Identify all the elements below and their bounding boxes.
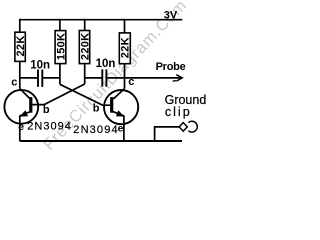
- wire T1 emitter down: [19, 115, 21, 141]
- wire R4 bottom lead / T2 collector: [124, 64, 126, 89]
- wire ground clip branch: [155, 127, 179, 142]
- transistor Q2 emitter arrow: [116, 110, 124, 116]
- wire T1 collector diagonal: [20, 89, 31, 99]
- wire R2 bottom lead: [59, 64, 61, 85]
- svg-text:c: c: [128, 76, 134, 88]
- wire cross diagonal B to T1 base: [33, 84, 85, 105]
- wire top rail 3V: [20, 19, 183, 21]
- capacitor C1 10n: [38, 70, 42, 87]
- svg-text:c: c: [11, 77, 17, 89]
- transistor Q2 circle: [104, 90, 138, 124]
- ground clip diamond: [179, 123, 187, 132]
- svg-text:2N3094: 2N3094: [73, 124, 118, 136]
- svg-text:10n: 10n: [96, 58, 116, 70]
- svg-text:2N3094: 2N3094: [27, 121, 72, 133]
- wire bottom rail: [20, 140, 182, 142]
- svg-text:22K: 22K: [120, 37, 132, 58]
- wire R4 top stub: [124, 19, 126, 33]
- resistor R3 220K: [79, 31, 91, 64]
- wire T2 emitter down: [123, 115, 125, 141]
- wire T2 emitter diagonal: [113, 112, 124, 116]
- svg-text:220K: 220K: [80, 33, 92, 61]
- transistor Q1 circle: [4, 90, 38, 124]
- svg-text:10n: 10n: [30, 59, 50, 71]
- capacitor C2 10n: [102, 69, 106, 86]
- svg-text:b: b: [43, 104, 50, 116]
- wire cross diagonal A to T2 base: [60, 84, 110, 105]
- wire R3 bottom lead: [84, 64, 86, 84]
- svg-text:clip: clip: [165, 105, 192, 119]
- svg-text:e: e: [18, 121, 24, 133]
- svg-text:150K: 150K: [55, 33, 67, 61]
- wire T1 emitter diagonal: [20, 112, 30, 116]
- svg-text:22K: 22K: [15, 35, 27, 56]
- svg-text:3V: 3V: [164, 10, 178, 22]
- transistor Q2 base bar: [110, 97, 113, 113]
- transistor Q1 base bar: [29, 97, 32, 113]
- probe arrowhead: [176, 75, 182, 81]
- wire node1 to C1: [20, 77, 38, 79]
- ground clip circle: [188, 121, 197, 132]
- resistor R4 22K: [119, 33, 131, 64]
- wire C1 right lead: [43, 77, 60, 79]
- svg-text:Probe: Probe: [156, 61, 186, 73]
- wire probe lead: [107, 77, 182, 79]
- wire R2 top stub: [59, 19, 61, 31]
- wire R1 bottom lead / T1 collector: [19, 61, 21, 88]
- watermark FreeCircuitDiagram.Com: [40, 0, 191, 154]
- wire T2 collector diagonal: [113, 89, 124, 99]
- wire R1 top stub: [19, 19, 21, 32]
- wire C2 left lead: [85, 77, 102, 79]
- svg-text:b: b: [93, 103, 100, 115]
- wire R3 top stub: [84, 19, 86, 31]
- resistor R1 22K: [15, 32, 27, 61]
- resistor R2 150K: [55, 31, 67, 64]
- transistor Q1 emitter arrow: [19, 110, 28, 116]
